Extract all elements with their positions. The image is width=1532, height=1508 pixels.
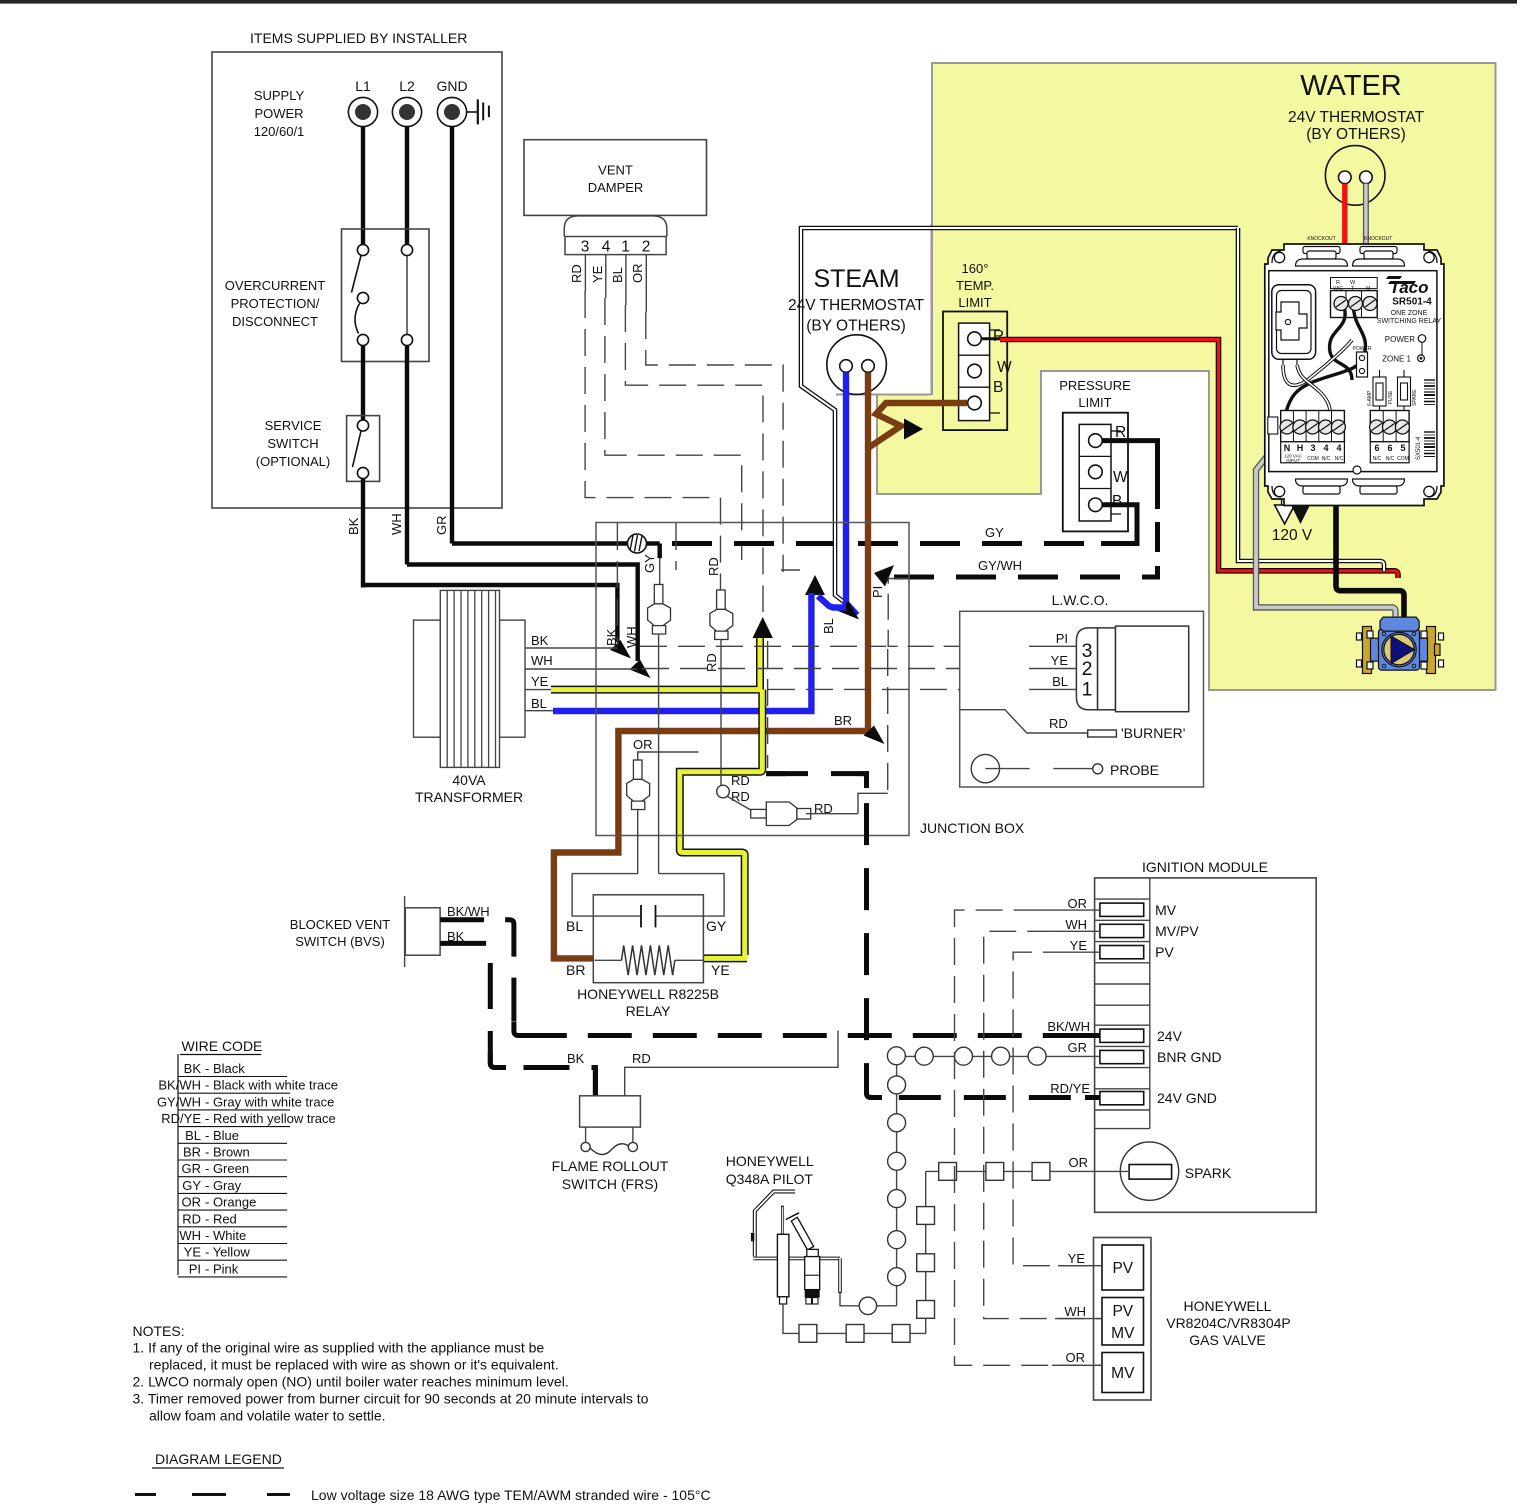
svg-text:40VA: 40VA	[452, 772, 486, 788]
svg-text:GY/WH: GY/WH	[978, 558, 1022, 573]
svg-text:JUNCTION BOX: JUNCTION BOX	[920, 820, 1025, 836]
svg-text:GND: GND	[436, 78, 467, 94]
wire nut GY	[648, 585, 671, 635]
svg-text:MV: MV	[1111, 1325, 1135, 1342]
lwco connector	[1076, 628, 1097, 710]
OR spark wire	[926, 1170, 1129, 1172]
svg-text:RD: RD	[569, 264, 584, 283]
svg-text:- Gray: - Gray	[205, 1178, 242, 1193]
terminal BNR GND	[1100, 1050, 1144, 1063]
wire BK out of box	[361, 479, 365, 588]
igniter cylinder	[777, 1234, 789, 1297]
probe	[971, 754, 999, 782]
svg-text:6: 6	[1374, 443, 1379, 453]
svg-text:RD: RD	[731, 789, 750, 804]
svg-text:WATER: WATER	[1300, 70, 1402, 102]
svg-text:HONEYWELL: HONEYWELL	[1184, 1298, 1272, 1314]
black wire taco to pump	[1328, 430, 1404, 618]
top knockout left	[1296, 247, 1405, 267]
svg-text:SPARK: SPARK	[1185, 1165, 1232, 1181]
svg-text:OR: OR	[1068, 896, 1088, 911]
svg-text:OR: OR	[182, 1195, 202, 1210]
svg-text:PI: PI	[870, 586, 885, 598]
svg-text:PV: PV	[1112, 1260, 1133, 1277]
svg-text:RD: RD	[632, 1051, 651, 1066]
svg-text:COM: COM	[1307, 456, 1319, 462]
yellow up arrow	[753, 617, 773, 638]
svg-text:H: H	[1297, 443, 1304, 453]
L1 pole switch	[357, 244, 368, 255]
svg-text:N/C: N/C	[1322, 456, 1331, 462]
WATER yellow zone	[877, 63, 1496, 690]
svg-text:N/C: N/C	[1373, 456, 1382, 462]
120V arrows	[1281, 464, 1289, 505]
svg-text:YE: YE	[1070, 938, 1088, 953]
wire nut RD	[710, 590, 733, 640]
blue up arrow	[805, 575, 825, 595]
svg-text:2: 2	[642, 239, 651, 256]
svg-text:GY/WH: GY/WH	[157, 1094, 201, 1109]
taco SR501-4 relay case	[1265, 244, 1444, 506]
svg-text:GY: GY	[985, 525, 1004, 540]
svg-text:PI: PI	[1056, 631, 1068, 646]
wire YE to gas valve PV	[1058, 1265, 1102, 1267]
svg-text:'BURNER': 'BURNER'	[1121, 725, 1185, 741]
honeywell R8225B relay	[593, 895, 703, 983]
terminal 24V GND	[1100, 1092, 1144, 1105]
circulator pump	[1357, 617, 1444, 673]
svg-text:KNOCKOUT: KNOCKOUT	[1307, 236, 1335, 242]
svg-text:RD: RD	[1049, 716, 1068, 731]
svg-text:OR: OR	[630, 264, 645, 284]
svg-text:BL: BL	[566, 918, 583, 934]
RD/YE black dashed wire to ignition module	[766, 774, 1100, 1098]
svg-text:OVERCURRENT: OVERCURRENT	[225, 278, 325, 293]
BK wire to FRS	[440, 943, 595, 1095]
dashed OR wire	[646, 312, 783, 572]
honeywell VR8204C/VR8304P gas valve box	[1094, 1238, 1152, 1401]
svg-text:LIMIT: LIMIT	[958, 295, 991, 310]
svg-text:BNR GND: BNR GND	[1157, 1049, 1222, 1065]
svg-text:BL: BL	[1052, 674, 1068, 689]
svg-text:- Red with yellow trace: - Red with yellow trace	[205, 1111, 336, 1126]
svg-text:HONEYWELL R8225B: HONEYWELL R8225B	[577, 986, 719, 1002]
inner panel	[1269, 271, 1437, 472]
svg-text:INPUT: INPUT	[1286, 458, 1300, 463]
wire WH to gas valve PV MV	[1055, 1318, 1102, 1320]
pilot wire to GR chain	[840, 1293, 859, 1306]
junction box	[596, 523, 909, 836]
OR upper lead	[638, 752, 699, 760]
svg-text:R: R	[993, 328, 1004, 345]
svg-text:replaced, it must be replaced: replaced, it must be replaced with wire …	[149, 1357, 559, 1373]
svg-text:PI: PI	[189, 1261, 201, 1276]
svg-text:TRANSFORMER: TRANSFORMER	[415, 789, 523, 805]
svg-text:3: 3	[581, 239, 590, 256]
svg-text:GAS VALVE: GAS VALVE	[1189, 1332, 1266, 1348]
svg-text:W: W	[997, 359, 1012, 376]
svg-text:KNOCKOUT: KNOCKOUT	[1364, 236, 1392, 242]
svg-text:6-AMP: 6-AMP	[1367, 390, 1373, 406]
svg-text:1: 1	[1082, 679, 1093, 701]
svg-text:OR: OR	[1069, 1155, 1089, 1170]
taco logo	[1386, 276, 1416, 284]
svg-text:YE: YE	[184, 1245, 202, 1260]
svg-text:DISCONNECT: DISCONNECT	[232, 314, 318, 329]
svg-text:24V GND: 24V GND	[1157, 1090, 1217, 1106]
svg-text:SUPPLY: SUPPLY	[254, 88, 305, 103]
svg-text:WH: WH	[389, 513, 404, 535]
svg-text:SWITCH (BVS): SWITCH (BVS)	[295, 934, 385, 949]
internal wiring curves	[1330, 310, 1352, 380]
svg-text:120/60/1: 120/60/1	[254, 124, 305, 139]
svg-text:BLOCKED VENT: BLOCKED VENT	[290, 917, 390, 932]
svg-text:WH: WH	[1065, 917, 1087, 932]
mounting ears	[1272, 251, 1437, 497]
RD wire from FRS	[625, 1031, 838, 1096]
svg-text:Q348A PILOT: Q348A PILOT	[726, 1171, 814, 1187]
svg-text:24V THERMOSTAT: 24V THERMOSTAT	[788, 297, 925, 314]
svg-text:120 V: 120 V	[1272, 527, 1313, 544]
bottom-left terminal block	[1281, 411, 1345, 442]
wire L1 to overcurrent	[361, 127, 365, 245]
svg-text:1: 1	[621, 239, 630, 256]
svg-text:DAMPER: DAMPER	[588, 180, 644, 195]
wire BK stub into FRS	[593, 1068, 598, 1096]
svg-text:FLAME ROLLOUT: FLAME ROLLOUT	[552, 1158, 669, 1174]
svg-text:OR: OR	[633, 737, 653, 752]
arrow BR	[864, 726, 885, 745]
BK/WH wire to ignition module	[440, 920, 1100, 1036]
svg-text:Taco: Taco	[1389, 278, 1428, 297]
pilot bracket tube	[755, 1192, 795, 1257]
steam thermostat circle	[827, 335, 887, 395]
svg-text:OR: OR	[1066, 1350, 1086, 1365]
svg-text:NOTES:: NOTES:	[133, 1323, 185, 1339]
leads	[584, 255, 586, 291]
svg-text:(BY OTHERS): (BY OTHERS)	[1306, 126, 1406, 143]
svg-text:VR8204C/VR8304P: VR8204C/VR8304P	[1166, 1315, 1291, 1331]
svg-text:- Gray with white trace: - Gray with white trace	[205, 1094, 334, 1109]
svg-text:SWITCH (FRS): SWITCH (FRS)	[562, 1176, 658, 1192]
bottom knockouts	[1296, 466, 1405, 494]
svg-text:- Brown: - Brown	[205, 1145, 250, 1160]
GR circle-chain wire	[897, 1056, 1099, 1305]
vent damper box	[524, 140, 707, 216]
svg-text:YE: YE	[531, 674, 549, 689]
svg-text:TEMP.: TEMP.	[956, 278, 994, 293]
wire BK horizontal to junction	[363, 585, 617, 642]
svg-text:4: 4	[1323, 443, 1328, 453]
PI thin wire	[888, 579, 1075, 647]
gray wire to taco	[1359, 184, 1366, 306]
black stub from R	[981, 337, 1000, 340]
svg-text:VENT: VENT	[598, 163, 633, 178]
ground screw	[628, 534, 647, 553]
svg-text:HONEYWELL: HONEYWELL	[726, 1153, 814, 1169]
svg-text:L1: L1	[355, 78, 371, 94]
RD RD circle and horizontal nut	[717, 785, 730, 798]
wire GR horizontal	[452, 541, 628, 545]
svg-text:L.W.C.O.: L.W.C.O.	[1052, 592, 1109, 608]
svg-text:PRESSURE: PRESSURE	[1059, 378, 1131, 393]
steam enclosure white-wire outline (double line)	[801, 228, 1238, 604]
wire GND down	[450, 127, 454, 544]
svg-text:- Orange: - Orange	[205, 1195, 256, 1210]
svg-text:BR: BR	[183, 1145, 201, 1160]
blue arrow SE into junction	[838, 601, 859, 620]
GY/WH dashed line	[894, 575, 1150, 580]
svg-text:POWER: POWER	[1385, 335, 1415, 344]
gas valve terminal MV	[1102, 1353, 1144, 1393]
svg-text:24V: 24V	[1157, 1028, 1183, 1044]
pilot burner body	[807, 1249, 819, 1256]
svg-text:GY: GY	[182, 1178, 201, 1193]
svg-text:1. If any of the original wire: 1. If any of the original wire as suppli…	[133, 1340, 545, 1356]
svg-text:24V THERMOSTAT: 24V THERMOSTAT	[1288, 109, 1425, 126]
igniter rod	[781, 1206, 784, 1235]
svg-text:- Green: - Green	[205, 1161, 249, 1176]
svg-text:GR: GR	[434, 516, 449, 536]
svg-text:- Red: - Red	[205, 1211, 237, 1226]
barcodes	[1424, 380, 1435, 457]
svg-text:(BY OTHERS): (BY OTHERS)	[806, 318, 906, 335]
svg-text:B: B	[993, 379, 1003, 396]
relay block top-left	[1272, 285, 1316, 360]
red wire to taco	[1342, 184, 1347, 308]
svg-text:BK: BK	[567, 1051, 585, 1066]
svg-text:3. Timer removed power from bu: 3. Timer removed power from burner circu…	[133, 1391, 649, 1407]
L.W.C.O. box	[960, 611, 1204, 787]
wires to service switch	[361, 346, 365, 420]
coil resistor	[595, 959, 622, 961]
40VA transformer	[414, 620, 441, 737]
wire from OR nut to BL side	[572, 874, 641, 917]
red wire from R to taco zone	[1000, 340, 1398, 579]
svg-text:L2: L2	[399, 78, 415, 94]
terminal MV/PV	[1100, 924, 1144, 937]
svg-text:BK/WH: BK/WH	[158, 1078, 201, 1093]
svg-text:RD/YE: RD/YE	[1050, 1081, 1090, 1096]
svg-text:GR: GR	[1068, 1040, 1088, 1055]
svg-text:PV: PV	[1112, 1303, 1133, 1320]
dashed YE wire	[605, 298, 742, 560]
svg-text:RELAY: RELAY	[626, 1003, 672, 1019]
wire WH horizontal	[407, 565, 638, 662]
wire OR to gas valve MV	[1052, 1364, 1102, 1366]
svg-text:SPARE: SPARE	[1412, 389, 1418, 406]
svg-text:DIAGRAM LEGEND: DIAGRAM LEGEND	[155, 1451, 282, 1467]
svg-text:WH: WH	[1064, 1304, 1086, 1319]
svg-text:YE: YE	[1068, 1251, 1086, 1266]
notes	[133, 1323, 649, 1424]
svg-text:BK/WH: BK/WH	[1047, 1019, 1090, 1034]
svg-text:LIMIT: LIMIT	[1078, 395, 1111, 410]
yellow wire: transformer YE to junction tee	[551, 636, 762, 958]
B wire of pressure limit	[1101, 505, 1137, 544]
wire BK/WH corner solid	[514, 1022, 532, 1036]
svg-text:BK: BK	[531, 633, 549, 648]
svg-text:WH: WH	[531, 653, 553, 668]
thin dashed horizontals	[781, 569, 800, 571]
gas valve terminal PV	[1102, 1245, 1144, 1290]
svg-text:ITEMS SUPPLIED BY INSTALLER: ITEMS SUPPLIED BY INSTALLER	[250, 30, 467, 46]
svg-text:SERVICE: SERVICE	[265, 418, 322, 433]
svg-text:SR501-4: SR501-4	[1392, 297, 1432, 308]
svg-text:(OPTIONAL): (OPTIONAL)	[256, 454, 330, 469]
svg-text:POWER: POWER	[254, 106, 303, 121]
burner wire	[960, 710, 1088, 733]
STEAM white box fill	[803, 227, 931, 394]
svg-text:GR: GR	[182, 1161, 202, 1176]
svg-text:- Black with white trace: - Black with white trace	[205, 1078, 338, 1093]
blue wire from steam thermostat	[846, 373, 857, 616]
ground symbol	[467, 111, 478, 113]
svg-text:SX501-4: SX501-4	[1416, 436, 1422, 460]
svg-text:BL: BL	[185, 1128, 201, 1143]
crossbar	[754, 1257, 841, 1261]
svg-text:4: 4	[1336, 443, 1341, 453]
svg-text:2. LWCO normaly open (NO) unti: 2. LWCO normaly open (NO) until boiler w…	[133, 1374, 569, 1390]
svg-text:- Blue: - Blue	[205, 1128, 239, 1143]
top window bar	[0, 0, 1517, 4]
svg-text:STEAM: STEAM	[813, 265, 899, 293]
dashed BL wire	[625, 305, 763, 612]
svg-text:MV: MV	[1111, 1365, 1135, 1382]
svg-text:GY: GY	[706, 918, 727, 934]
svg-text:ONE ZONE: ONE ZONE	[1391, 310, 1428, 317]
terminal 24V	[1100, 1029, 1144, 1042]
dashed RD wire	[585, 291, 720, 590]
svg-text:PROTECTION/: PROTECTION/	[231, 296, 320, 311]
svg-text:RD: RD	[706, 557, 721, 576]
svg-text:5: 5	[1400, 443, 1405, 453]
arrow BK	[610, 640, 631, 659]
svg-text:6: 6	[1387, 443, 1392, 453]
thin dashed verticals inside junction box	[616, 523, 618, 645]
R wire of pressure limit	[1102, 441, 1157, 509]
svg-text:WH: WH	[179, 1228, 201, 1243]
svg-text:N/C: N/C	[1335, 456, 1344, 462]
svg-text:- Black: - Black	[205, 1061, 245, 1076]
small center connector	[1357, 352, 1368, 377]
svg-text:COM: COM	[1397, 456, 1409, 462]
svg-text:BK: BK	[346, 517, 361, 535]
terminal MV	[1100, 903, 1144, 916]
gas valve terminal PV MV	[1102, 1298, 1144, 1346]
brown wire from steam thermostat to temp limit	[865, 373, 871, 446]
svg-text:WIRE CODE: WIRE CODE	[182, 1038, 263, 1054]
svg-text:POWER: POWER	[1353, 346, 1372, 352]
WH dashed wire to valve PV/MV	[984, 931, 1102, 1318]
terminal PV	[1100, 946, 1144, 959]
igniter square-chain wire to spark	[783, 1171, 926, 1333]
blue wire transformer to arrows	[553, 593, 846, 711]
svg-text:BR: BR	[566, 962, 585, 978]
svg-text:SWITCH: SWITCH	[267, 436, 318, 451]
svg-text:RD: RD	[731, 773, 750, 788]
brown wire down to junction	[554, 445, 868, 958]
YE dashed wire to valve PV	[1013, 952, 1102, 1265]
svg-text:PV: PV	[1155, 944, 1174, 960]
svg-text:SWITCHING RELAY: SWITCHING RELAY	[1377, 318, 1442, 325]
svg-text:3: 3	[1310, 443, 1315, 453]
svg-text:PROBE: PROBE	[1110, 762, 1159, 778]
stubs	[1041, 909, 1100, 911]
svg-text:- Pink: - Pink	[205, 1261, 239, 1276]
water thermostat circle	[1325, 146, 1385, 206]
svg-text:MV/PV: MV/PV	[1155, 923, 1199, 939]
svg-text:B: B	[1112, 493, 1122, 510]
svg-text:allow foam and volatile water: allow foam and volatile water to settle.	[149, 1408, 386, 1424]
svg-text:RD: RD	[182, 1211, 201, 1226]
pilot burner angled tube	[791, 1217, 813, 1250]
svg-text:Low voltage size 18 AWG type T: Low voltage size 18 AWG type TEM/AWM str…	[311, 1487, 711, 1503]
fuse holders	[1373, 370, 1411, 413]
wire BK corner solid	[490, 1052, 506, 1068]
vent damper connector	[564, 216, 667, 237]
top terminal block	[1331, 278, 1378, 289]
GY dashed line	[672, 541, 1101, 546]
svg-text:N: N	[1284, 443, 1291, 453]
svg-text:BK: BK	[184, 1061, 202, 1076]
arrow WH	[630, 660, 651, 679]
gray wire taco to pump	[1256, 436, 1396, 618]
svg-text:- White: - White	[205, 1228, 246, 1243]
svg-text:MV: MV	[1155, 902, 1177, 918]
svg-text:W: W	[1113, 469, 1128, 486]
svg-text:BL: BL	[610, 267, 625, 283]
svg-text:YE: YE	[1051, 653, 1069, 668]
svg-text:BK/WH: BK/WH	[447, 904, 490, 919]
OR dashed wire to valve MV	[955, 910, 1103, 1365]
svg-text:N/C: N/C	[1386, 456, 1395, 462]
svg-text:- Yellow: - Yellow	[205, 1245, 250, 1260]
svg-text:BL: BL	[821, 618, 836, 634]
PI arrow	[874, 565, 894, 587]
svg-text:FUSE: FUSE	[1388, 390, 1394, 404]
L2 pole	[401, 244, 412, 255]
svg-text:ZONE 1: ZONE 1	[1382, 355, 1411, 364]
svg-text:BL: BL	[531, 696, 547, 711]
svg-text:RD/YE: RD/YE	[161, 1111, 201, 1126]
svg-text:GY: GY	[642, 554, 657, 573]
capacitor	[640, 905, 642, 927]
svg-text:YE: YE	[711, 962, 730, 978]
svg-text:BR: BR	[834, 713, 852, 728]
left small connector	[1268, 417, 1278, 434]
wire from GY nut to GY side	[656, 874, 725, 917]
svg-text:YE: YE	[590, 265, 605, 283]
svg-text:160°: 160°	[962, 261, 989, 276]
svg-text:4: 4	[602, 239, 611, 256]
brown zig arrow	[904, 419, 923, 440]
bottom-right terminal block	[1370, 411, 1409, 442]
spark	[1120, 1142, 1178, 1200]
svg-text:IGNITION MODULE: IGNITION MODULE	[1142, 859, 1268, 875]
svg-text:2: 2	[1082, 658, 1093, 680]
wire L2 to overcurrent	[405, 127, 409, 245]
